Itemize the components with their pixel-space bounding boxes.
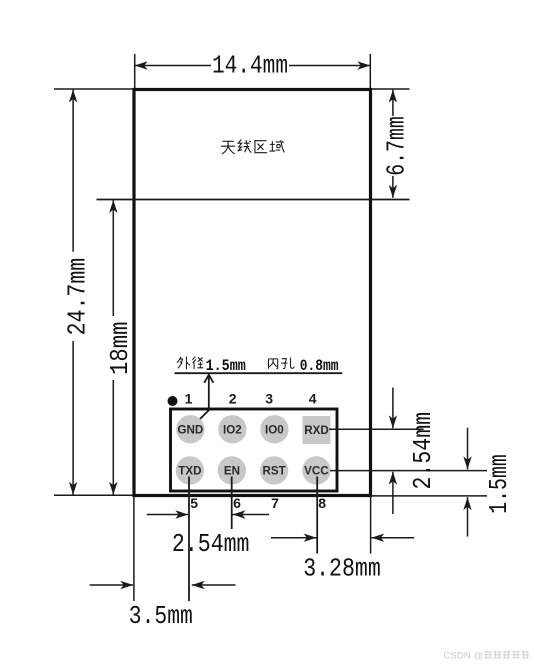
svg-text:3.5mm: 3.5mm	[129, 601, 193, 631]
dimension 1.5mm right arrow down	[463, 428, 471, 470]
left extension line bottom	[54, 494, 133, 496]
pad GND	[176, 415, 204, 443]
leader from spec text to pad GND	[194, 375, 213, 425]
watermark CJK blocks	[484, 651, 529, 658]
svg-text:4: 4	[309, 391, 317, 407]
svg-text:3.28mm: 3.28mm	[303, 554, 381, 584]
pad IO0	[260, 415, 288, 443]
module outline	[134, 90, 371, 496]
svg-text:8: 8	[318, 495, 326, 511]
extension line from pad VCC down	[316, 477, 318, 554]
pad EN	[218, 456, 246, 484]
svg-text:18mm: 18mm	[105, 321, 135, 375]
pad IO2	[218, 415, 246, 443]
pad RST	[260, 456, 288, 484]
dimension 1.5mm right arrow up	[463, 497, 471, 536]
extension line module right edge down	[370, 497, 372, 554]
dimension 2.54mm bottom arrow left	[233, 510, 270, 518]
svg-text:6: 6	[233, 495, 241, 511]
dimension 24.7mm arrow down	[69, 341, 77, 495]
svg-text:VCC: VCC	[304, 465, 329, 478]
dimension 14.4mm arrow left	[135, 61, 211, 69]
svg-text:1.5mm: 1.5mm	[206, 357, 247, 375]
svg-text:RST: RST	[263, 465, 286, 478]
dimension 2.54mm right arrow down	[389, 388, 397, 429]
svg-text:GND: GND	[178, 424, 204, 437]
dimension 6.7mm arrow up	[389, 90, 397, 116]
svg-text:7: 7	[271, 495, 279, 511]
dimension 18mm arrow up	[109, 200, 117, 316]
top dimension extension line right	[369, 54, 371, 88]
pad area outline	[171, 409, 338, 491]
leader line from pad VCC right	[330, 470, 487, 472]
extension line module left edge down	[133, 497, 135, 601]
dimension 14.4mm arrow right	[289, 61, 370, 69]
dimension 18mm arrow down	[109, 380, 117, 495]
svg-text:IO0: IO0	[265, 424, 284, 437]
hole spec label 外径1.5mm 内孔 0.8mm	[177, 357, 203, 370]
right extension line top	[372, 88, 410, 90]
svg-text:14.4mm: 14.4mm	[212, 51, 288, 81]
dimension 6.7mm arrow down	[389, 176, 397, 198]
svg-text:TXD: TXD	[178, 465, 201, 478]
svg-text:CSDN @: CSDN @	[444, 651, 484, 662]
dimension 3.5mm arrow left	[192, 581, 236, 589]
svg-text:1.5mm: 1.5mm	[484, 454, 514, 514]
dimension 24.7mm arrow up	[69, 90, 77, 252]
extension line from pad EN down	[231, 477, 233, 530]
top dimension extension line left	[134, 54, 136, 88]
svg-text:IO2: IO2	[223, 424, 242, 437]
svg-text:1: 1	[185, 391, 193, 407]
svg-text:EN: EN	[224, 465, 240, 478]
svg-text:3: 3	[265, 391, 273, 407]
extension of module bottom edge right	[371, 495, 487, 497]
pin 1 marker dot	[168, 396, 178, 406]
pad VCC	[302, 456, 330, 484]
antenna boundary line	[97, 199, 410, 201]
leader line from pad RXD right	[329, 428, 424, 430]
svg-text:2: 2	[229, 391, 237, 407]
svg-text:RXD: RXD	[304, 424, 328, 437]
dimension 3.28mm arrow left	[371, 534, 414, 542]
svg-text:6.7mm: 6.7mm	[381, 116, 411, 176]
svg-text:5: 5	[190, 495, 198, 511]
pad TXD	[176, 456, 204, 484]
svg-text:2.54mm: 2.54mm	[172, 529, 250, 559]
antenna area label 天线区域	[221, 140, 284, 154]
svg-text:0.8mm: 0.8mm	[300, 357, 339, 375]
pad RXD square	[303, 416, 331, 444]
extension line from pad TXD down	[188, 477, 190, 602]
dimension 3.28mm arrow right	[271, 534, 317, 542]
left extension line top	[54, 88, 133, 90]
svg-text:2.54mm: 2.54mm	[408, 412, 438, 490]
dimension 2.54mm bottom arrow right	[147, 510, 188, 518]
svg-text:24.7mm: 24.7mm	[62, 258, 92, 336]
dimension 2.54mm right arrow up	[389, 472, 397, 514]
dimension 3.5mm arrow right	[90, 581, 134, 589]
hole spec underline	[175, 372, 343, 374]
